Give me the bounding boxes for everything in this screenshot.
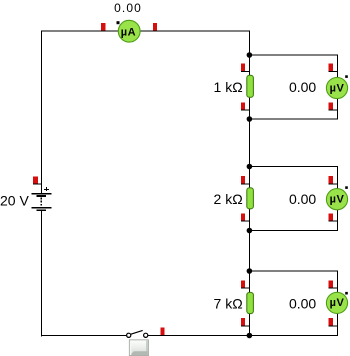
wire: bottom rail from node F to voltmeter U4 branch corner [249,335,338,336]
node B junction dot [247,116,253,122]
wire: bottom rail left of switch [41,335,127,336]
svg-text:0.00: 0.00 [289,79,316,95]
node F junction dot (on bottom rail) [247,333,253,339]
wire: branch 3 top horizontal (node E to voltmeter U4) [249,271,338,272]
resistor R3 (7 kOhm) body [247,292,254,313]
resistor R3 bottom terminal tick (red) [241,318,250,326]
svg-text:1 kΩ: 1 kΩ [214,79,243,95]
switch S1 terminal tick (red) [160,328,164,336]
wire: right column vertical through R1 R2 R3 [249,31,250,337]
wire: branch 1 bottom horizontal (voltmeter U2 back to node B) [249,119,338,120]
battery V1 (20 V) symbol plates [31,193,51,211]
voltmeter U2 (microvolt meter) [326,77,347,98]
battery V1 plus sign [44,187,49,191]
voltmeter U4 top terminal tick (red) [329,280,338,288]
ammeter U1 polarity dot [117,21,120,24]
svg-text:0.00: 0.00 [289,191,316,207]
voltmeter U3 bottom terminal tick (red) [329,213,338,221]
svg-text:µV: µV [330,194,345,206]
ammeter U1 left terminal tick (red) [101,23,105,31]
svg-text:20 V: 20 V [0,192,29,208]
voltmeter U3 (microvolt meter) [326,189,347,210]
node D junction dot [247,228,253,234]
resistor R2 bottom terminal tick (red) [241,213,250,221]
wire: branch 2 bottom horizontal (voltmeter U3 back to node D) [249,230,338,231]
svg-text:0.00: 0.00 [289,296,316,312]
wire: top rail from battery to right column [41,31,250,32]
voltmeter U4 (microvolt meter) [326,292,347,313]
svg-text:7 kΩ: 7 kΩ [214,296,243,312]
svg-text:µA: µA [121,27,136,39]
resistor R1 (1 kOhm) body [247,75,254,97]
wire: bottom rail between switch and node F [148,335,250,336]
node E junction dot [247,268,253,274]
resistor R1 top terminal tick (red) [241,64,250,72]
resistor R1 bottom terminal tick (red) [241,102,250,110]
switch S1 left contact [127,333,131,337]
wire: branch 1 top horizontal (node A to voltmeter U2) [249,55,338,56]
resistor R2 top terminal tick (red) [241,176,250,184]
ammeter U1 right terminal tick (red) [153,23,157,31]
wire: left rail upper (battery + terminal up to top-left corner) [41,31,42,194]
voltmeter U3 polarity dot [345,186,348,189]
svg-text:µV: µV [330,297,345,309]
voltmeter U2 top terminal tick (red) [329,64,338,72]
battery V1 dotted cell separator [41,198,42,206]
wire: branch 2 top horizontal (node C to voltmeter U3) [249,166,338,167]
switch S1 right contact [144,333,148,337]
resistor R3 top terminal tick (red) [241,280,250,288]
node C junction dot [247,164,253,170]
svg-text:0.00: 0.00 [114,1,142,15]
resistor R2 (2 kOhm) body [247,188,254,209]
wire: branch 2 vertical through voltmeter U3 [337,166,338,231]
wire: branch 3 vertical through voltmeter U4 [337,271,338,337]
ammeter U1 (microamp meter) [118,20,140,42]
voltmeter U3 top terminal tick (red) [329,176,338,184]
svg-text:2 kΩ: 2 kΩ [214,191,243,207]
switch S1 blade (open) [131,330,143,334]
voltmeter U2 polarity dot [345,75,348,78]
switch S1 key button icon [129,340,148,356]
voltmeter U2 bottom terminal tick (red) [329,102,338,110]
voltmeter U4 bottom terminal tick (red) [329,318,338,326]
battery terminal tick (red) [33,176,41,184]
svg-text:µV: µV [330,82,345,94]
node A junction dot [247,52,253,58]
wire: left rail lower (battery - terminal down to bottom-left corner) [41,211,42,337]
wire: branch 1 vertical through voltmeter U2 [337,55,338,120]
voltmeter U4 polarity dot [345,292,348,295]
